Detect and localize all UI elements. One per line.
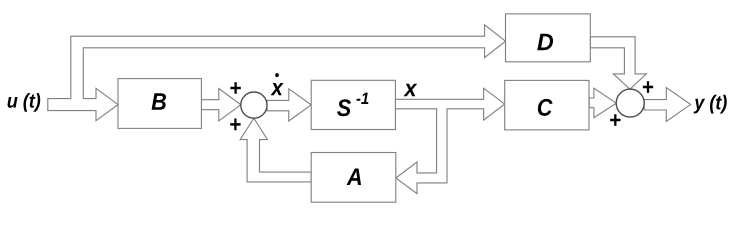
label A: [347, 168, 361, 185]
wire arrow B to sum1: [201, 89, 240, 121]
plus sum1 bottom: [230, 119, 240, 131]
wire input u(t) to B with branch up to top rail into D: [48, 25, 506, 121]
wire D down into sum2: [590, 37, 646, 89]
block S-1: [311, 80, 395, 129]
plus sum2 bottom: [610, 114, 620, 126]
label B: [152, 93, 166, 110]
label superscript -1: [356, 93, 368, 104]
wire arrow sum1 to S-1: [267, 89, 311, 121]
label D: [537, 34, 553, 51]
label x: [403, 84, 417, 96]
wire arrow C to sum2: [589, 88, 616, 118]
block A: [311, 153, 396, 203]
label S: [337, 99, 351, 116]
wire A feedback to sum1 bottom: [240, 118, 311, 182]
block C: [505, 80, 589, 129]
summing junction 2: [616, 89, 644, 117]
wire arrow sum2 to y(t): [644, 88, 690, 122]
label y(t): [694, 95, 727, 114]
label x-dot: [270, 83, 283, 95]
summing junction 1: [241, 92, 267, 118]
label C: [538, 99, 553, 116]
label u(t): [8, 93, 41, 112]
plus sum2 top: [643, 81, 653, 93]
x-dot dot: [275, 73, 279, 77]
plus sum1 top: [230, 82, 240, 94]
block B: [118, 79, 201, 129]
wire S-1 to C with branch down into A: [395, 88, 504, 193]
block D: [506, 14, 591, 62]
